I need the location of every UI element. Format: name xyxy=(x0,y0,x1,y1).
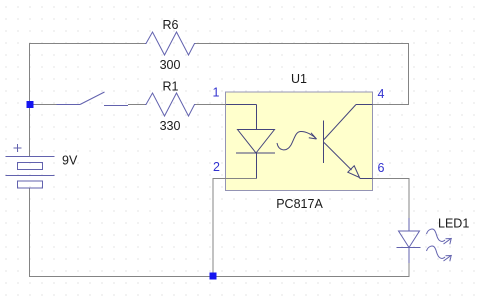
U1 internal: collector line to pin 4 xyxy=(324,105,373,140)
battery BT1 9V xyxy=(6,157,55,189)
wire switch to R1 xyxy=(128,104,146,106)
pin number 2 xyxy=(213,160,220,174)
svg-text:U1: U1 xyxy=(291,72,307,86)
resistor R1 xyxy=(145,93,196,116)
wire U1 pin 2 to bottom junction xyxy=(213,179,257,278)
LED1 emission squiggle arrow lower xyxy=(427,246,452,261)
wire LED1 cathode to bottom xyxy=(408,263,410,277)
svg-text:R6: R6 xyxy=(163,18,179,32)
svg-text:1: 1 xyxy=(213,86,220,100)
U1 internal: emitter line with arrow to pin 6 xyxy=(324,143,373,179)
svg-text:LED1: LED1 xyxy=(438,217,469,231)
svg-text:6: 6 xyxy=(378,161,385,175)
U1 internal: pin1 lead into LED anode xyxy=(226,105,256,130)
wire left vertical battery- to bottom xyxy=(29,188,31,277)
U1 internal: photodiode (emitter LED) xyxy=(236,130,275,179)
optocoupler U1 body box xyxy=(226,92,373,191)
svg-text:PC817A: PC817A xyxy=(276,197,323,211)
U1 internal: phototransistor base bar xyxy=(322,121,324,164)
wire top net from R6 to U1 pin 4 xyxy=(195,44,409,105)
wire top net from battery+ to R6 xyxy=(30,43,146,45)
LED1 emission squiggle arrow upper xyxy=(427,229,452,244)
pin number 1 xyxy=(213,86,220,100)
junction node battery/switch xyxy=(27,101,34,108)
svg-text:300: 300 xyxy=(160,58,181,72)
battery plus sign xyxy=(14,144,22,152)
pin number 6 xyxy=(378,161,385,175)
svg-text:9V: 9V xyxy=(62,154,78,168)
U1 internal: light coupling squiggle arrow xyxy=(277,131,317,149)
diode LED1 xyxy=(397,218,421,263)
wire left vertical battery+ xyxy=(29,43,31,156)
junction node bottom net xyxy=(210,273,217,280)
label U1 xyxy=(291,72,307,86)
pin number 4 xyxy=(378,87,385,101)
switch S1 xyxy=(57,92,129,106)
svg-text:2: 2 xyxy=(213,160,220,174)
wire bottom ground net xyxy=(30,276,410,278)
label PC817A xyxy=(276,197,323,211)
wire U1 pin 6 to LED1 xyxy=(373,179,410,219)
label R1 xyxy=(163,80,179,94)
value 330 xyxy=(160,119,181,133)
wire switch row: junction to switch xyxy=(30,104,57,106)
svg-text:R1: R1 xyxy=(163,80,179,94)
wire R1 to U1 pin 1 xyxy=(195,104,257,106)
label 9V xyxy=(62,154,78,168)
resistor R6 xyxy=(145,32,196,55)
svg-text:330: 330 xyxy=(160,119,181,133)
svg-text:4: 4 xyxy=(378,87,385,101)
label R6 xyxy=(163,18,179,32)
value 300 xyxy=(160,58,181,72)
label LED1 xyxy=(438,217,469,231)
